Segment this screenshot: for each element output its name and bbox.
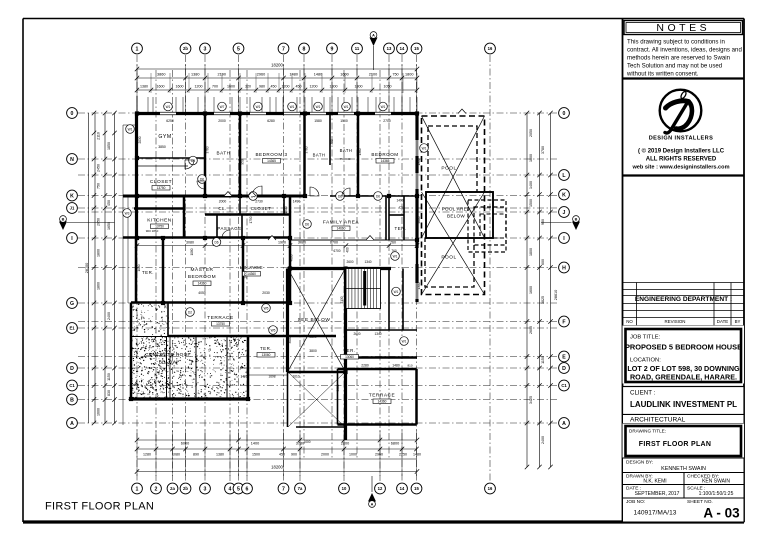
svg-text:D: D xyxy=(70,366,74,372)
top grid bubbles xyxy=(132,43,496,54)
svg-text:2100: 2100 xyxy=(369,73,377,77)
svg-text:2960: 2960 xyxy=(257,73,265,77)
room label LOUNGE xyxy=(240,265,270,295)
svg-text:1800: 1800 xyxy=(529,154,533,162)
svg-text:1900: 1900 xyxy=(278,241,286,245)
svg-text:2600: 2600 xyxy=(529,326,533,334)
pool area below outline xyxy=(426,192,493,238)
svg-text:14365: 14365 xyxy=(381,159,390,163)
title block: drawn/checked row xyxy=(623,473,745,523)
wall: stair right rooms xyxy=(346,269,417,331)
right dim band xyxy=(525,111,558,469)
svg-text:CLOSET: CLOSET xyxy=(150,179,172,185)
svg-text:N.K. KEMI: N.K. KEMI xyxy=(643,479,666,485)
svg-text:W1: W1 xyxy=(344,105,349,109)
svg-text:810: 810 xyxy=(407,364,412,368)
wall: ter/master divider xyxy=(162,238,165,303)
wall: terrace bottom xyxy=(168,335,336,338)
room label TER mid xyxy=(257,346,275,357)
svg-text:BELOW: BELOW xyxy=(447,214,465,219)
svg-text:D: D xyxy=(562,366,566,372)
svg-text:POOL: POOL xyxy=(441,255,456,261)
pool lower dashed outline xyxy=(425,238,474,287)
svg-text:3850: 3850 xyxy=(158,145,166,149)
svg-text:B: B xyxy=(575,217,578,221)
wall: family right ter xyxy=(385,196,387,240)
svg-text:1000: 1000 xyxy=(349,453,357,457)
see-below cross xyxy=(288,269,345,427)
svg-text:1150: 1150 xyxy=(107,373,111,381)
svg-text:18200: 18200 xyxy=(271,63,283,68)
svg-text:1600: 1600 xyxy=(529,286,533,294)
svg-text:BATH: BATH xyxy=(217,151,231,156)
right grid bubbles xyxy=(559,108,570,429)
svg-text:1: 1 xyxy=(136,46,139,52)
bottom dim line 2 xyxy=(135,447,421,457)
svg-text:1800: 1800 xyxy=(529,248,533,256)
svg-text:DESIGN INSTALLERS: DESIGN INSTALLERS xyxy=(649,136,714,142)
svg-text:6280: 6280 xyxy=(267,119,275,123)
svg-text:DATE: DATE xyxy=(717,319,728,324)
svg-text:H: H xyxy=(562,265,566,271)
svg-text:2030: 2030 xyxy=(138,136,142,143)
svg-text:ENGINEERING DEPARTMENT :: ENGINEERING DEPARTMENT : xyxy=(635,296,732,303)
room label TER left xyxy=(142,270,154,275)
svg-text:1860: 1860 xyxy=(97,282,101,290)
room label POOL lower xyxy=(441,255,456,261)
svg-text:1900: 1900 xyxy=(417,158,421,165)
svg-text:700: 700 xyxy=(212,85,218,89)
svg-text:1400: 1400 xyxy=(251,442,259,446)
left dim band xyxy=(85,111,117,425)
svg-text:W7: W7 xyxy=(220,105,225,109)
horizontal grid lines xyxy=(78,113,557,423)
svg-text:1600: 1600 xyxy=(97,408,101,416)
room label CLOSET 2 xyxy=(251,200,301,212)
svg-text:A: A xyxy=(372,33,375,37)
svg-text:( © 2019 Design Installers LLC: ( © 2019 Design Installers LLC xyxy=(638,148,725,155)
svg-text:2190: 2190 xyxy=(218,73,226,77)
svg-text:900: 900 xyxy=(541,219,545,225)
svg-text:W1: W1 xyxy=(166,105,171,109)
svg-text:13750: 13750 xyxy=(157,186,166,190)
wall: bath/bedroom3 divider xyxy=(239,114,242,197)
svg-text:16: 16 xyxy=(488,46,493,51)
svg-text:2130: 2130 xyxy=(340,296,344,303)
svg-text:3780: 3780 xyxy=(541,146,545,154)
svg-text:1480: 1480 xyxy=(413,453,421,457)
svg-text:13060: 13060 xyxy=(262,353,271,357)
pool cross upper xyxy=(422,116,485,238)
top dim extension lines xyxy=(137,64,417,112)
svg-text:2000: 2000 xyxy=(218,119,226,123)
left grid bubbles xyxy=(67,108,78,429)
svg-text:2050: 2050 xyxy=(97,218,101,226)
svg-text:2b: 2b xyxy=(183,486,188,491)
svg-text:2600: 2600 xyxy=(346,260,353,264)
svg-text:2110: 2110 xyxy=(97,132,101,140)
svg-text:1080: 1080 xyxy=(172,453,180,457)
svg-text:7: 7 xyxy=(282,46,285,52)
svg-text:CONCRETE ROOF: CONCRETE ROOF xyxy=(145,352,191,357)
svg-text:1600: 1600 xyxy=(157,85,165,89)
wall: bath/bedroom divider xyxy=(357,114,360,197)
svg-text:KENNETH SWAIN: KENNETH SWAIN xyxy=(661,466,706,472)
svg-text:18200: 18200 xyxy=(271,465,283,470)
roof edge top xyxy=(123,124,137,126)
svg-text:D6: D6 xyxy=(305,222,309,226)
door swing arcs xyxy=(185,160,510,238)
svg-text:FIRST FLOOR PLAN: FIRST FLOOR PLAN xyxy=(45,501,154,513)
svg-text:REVISION: REVISION xyxy=(665,319,686,324)
svg-text:1800: 1800 xyxy=(97,249,101,257)
svg-text:3800: 3800 xyxy=(309,349,317,353)
svg-text:0: 0 xyxy=(71,111,74,117)
room label BEDROOM 3 xyxy=(255,152,287,163)
svg-text:450: 450 xyxy=(296,85,302,89)
wall: cl/closet divider xyxy=(240,196,284,215)
svg-text:N: N xyxy=(70,157,74,163)
svg-text:2450: 2450 xyxy=(97,164,101,172)
top dim line overall xyxy=(135,63,419,72)
svg-text:2730: 2730 xyxy=(255,200,263,204)
svg-text:450: 450 xyxy=(279,453,285,457)
room label TER right xyxy=(394,199,406,232)
svg-text:TERRACE: TERRACE xyxy=(207,315,233,321)
room label BATH 2 xyxy=(313,153,326,158)
svg-text:1500: 1500 xyxy=(284,206,288,213)
svg-text:890: 890 xyxy=(193,453,199,457)
svg-text:K: K xyxy=(70,193,74,199)
wall: concrete roof step xyxy=(169,336,171,399)
wall: concrete roof left xyxy=(130,303,133,400)
svg-text:KEN SWAIN: KEN SWAIN xyxy=(702,479,730,485)
roof edge lines left xyxy=(123,125,128,425)
svg-text:without its written consent.: without its written consent. xyxy=(626,71,699,78)
svg-text:POOL AREA: POOL AREA xyxy=(442,207,471,212)
svg-text:2400: 2400 xyxy=(541,436,545,444)
svg-text:6000: 6000 xyxy=(181,442,189,446)
room label BATH 1 xyxy=(217,151,231,156)
wall: left exterior lower xyxy=(135,238,138,303)
svg-text:GYM: GYM xyxy=(158,134,171,140)
svg-text:2b: 2b xyxy=(183,46,188,51)
svg-text:2400: 2400 xyxy=(107,312,111,320)
svg-text:15: 15 xyxy=(414,486,419,491)
title block: logo captions xyxy=(623,136,745,176)
room label PASSAGE xyxy=(217,226,241,231)
svg-text:4: 4 xyxy=(229,486,232,492)
wall: top exterior xyxy=(137,112,417,115)
svg-text:1400: 1400 xyxy=(240,375,247,379)
svg-text:ALL RIGHTS RESERVED: ALL RIGHTS RESERVED xyxy=(646,157,717,163)
svg-text:7: 7 xyxy=(282,486,285,492)
svg-text:1600: 1600 xyxy=(227,85,235,89)
wall: see-below bottom xyxy=(288,371,346,374)
svg-text:A: A xyxy=(371,502,374,506)
bottom grid bubbles xyxy=(132,483,496,494)
svg-text:6700: 6700 xyxy=(330,241,338,245)
svg-text:16: 16 xyxy=(488,486,493,491)
svg-text:4600: 4600 xyxy=(417,216,421,223)
svg-text:3860: 3860 xyxy=(157,73,165,77)
svg-text:1360: 1360 xyxy=(358,148,362,155)
svg-text:7a: 7a xyxy=(298,486,303,491)
svg-text:W3: W3 xyxy=(125,211,130,215)
pool cross lower xyxy=(422,192,485,295)
svg-text:1480: 1480 xyxy=(314,73,322,77)
svg-text:contract. All inventions, idea: contract. All inventions, ideas, designs… xyxy=(627,47,742,54)
svg-text:28700: 28700 xyxy=(85,263,89,274)
svg-text:J1: J1 xyxy=(70,206,75,211)
svg-text:DRAWING TITLE:: DRAWING TITLE: xyxy=(629,429,666,434)
svg-text:3425: 3425 xyxy=(529,396,533,404)
svg-text:JOB TITLE:: JOB TITLE: xyxy=(630,335,661,341)
svg-text:1150: 1150 xyxy=(541,356,545,364)
svg-text:1:100/1:50/1:25: 1:100/1:50/1:25 xyxy=(699,491,734,497)
svg-text:28610: 28610 xyxy=(554,290,558,301)
room label FAMILY AREA xyxy=(323,220,360,231)
title block: notes disclaimer text xyxy=(623,35,745,79)
wall: terrace2 left xyxy=(337,369,339,425)
room label KITCHEN xyxy=(146,218,172,234)
wall: terrace2 right xyxy=(415,369,418,425)
room label POOL upper xyxy=(441,166,456,172)
svg-text:10: 10 xyxy=(342,486,347,491)
room label BEDROOM xyxy=(371,152,398,163)
svg-text:2: 2 xyxy=(155,486,158,492)
svg-text:TER.: TER. xyxy=(343,348,355,353)
vertical grid lines xyxy=(137,55,490,481)
svg-text:14360: 14360 xyxy=(378,400,387,404)
svg-text:1340: 1340 xyxy=(364,260,371,264)
svg-text:2080: 2080 xyxy=(298,241,306,245)
svg-text:900: 900 xyxy=(291,453,297,457)
svg-text:6250: 6250 xyxy=(166,119,174,123)
svg-text:CL.: CL. xyxy=(218,206,226,211)
wall: concrete roof bottom xyxy=(131,397,248,400)
title block: NOTES header box xyxy=(624,21,743,35)
wall: master/lounge divider xyxy=(242,238,245,303)
wall: gym/bath divider xyxy=(204,114,207,197)
svg-text:Tech Solution and may not be u: Tech Solution and may not be used xyxy=(627,63,722,70)
svg-text:A: A xyxy=(562,421,566,427)
svg-text:2450: 2450 xyxy=(244,271,248,278)
svg-text:2250: 2250 xyxy=(399,453,407,457)
svg-text:JOB NO:: JOB NO: xyxy=(626,499,645,505)
svg-text:1000: 1000 xyxy=(137,264,141,271)
svg-text:1480: 1480 xyxy=(290,73,298,77)
svg-text:BEDROOM 3: BEDROOM 3 xyxy=(255,152,287,157)
svg-text:W1: W1 xyxy=(402,339,407,343)
wall: concrete roof right xyxy=(248,336,290,399)
svg-text:PROPOSED 5 BEDROOM HOUSE: PROPOSED 5 BEDROOM HOUSE xyxy=(625,343,742,352)
svg-text:1380: 1380 xyxy=(216,453,224,457)
svg-text:1490: 1490 xyxy=(396,199,403,203)
svg-text:1500: 1500 xyxy=(340,119,348,123)
svg-text:ROAD, GREENDALE, HARARE.: ROAD, GREENDALE, HARARE. xyxy=(630,373,737,382)
section flag A top xyxy=(370,32,378,70)
wall: terrace2 bottom xyxy=(338,423,417,426)
concrete roof divider walls xyxy=(131,337,248,400)
room label POOL AREA BELOW xyxy=(442,207,471,219)
svg-text:C1: C1 xyxy=(69,383,75,388)
wall: row I xyxy=(123,236,290,239)
svg-text:BATH: BATH xyxy=(340,148,353,153)
svg-text:D6: D6 xyxy=(191,159,195,163)
svg-text:CLOSET: CLOSET xyxy=(251,206,272,211)
room label CONCRETE ROOF xyxy=(145,352,191,365)
svg-text:14: 14 xyxy=(400,46,405,51)
svg-text:1850: 1850 xyxy=(107,142,111,150)
terrace2 dim row xyxy=(361,364,413,368)
svg-text:9: 9 xyxy=(331,46,334,52)
wall: family left xyxy=(289,196,292,303)
svg-text:SEE BELOW: SEE BELOW xyxy=(298,317,331,323)
svg-text:MASTER: MASTER xyxy=(191,267,214,273)
svg-text:BEDROOM: BEDROOM xyxy=(188,274,216,280)
svg-text:1200: 1200 xyxy=(282,85,290,89)
section flag B left xyxy=(59,216,115,230)
svg-text:14660: 14660 xyxy=(337,227,346,231)
section flag A bottom xyxy=(368,476,376,507)
wall: terrace2 row E xyxy=(346,356,418,359)
top dim line segments xyxy=(135,73,419,81)
mid dim line xyxy=(135,241,419,248)
room label TERRACE lower xyxy=(369,393,395,404)
svg-text:750: 750 xyxy=(392,73,398,77)
bottom dim extension lines xyxy=(137,430,417,476)
svg-text:8: 8 xyxy=(303,46,306,52)
svg-text:140917/MA/13: 140917/MA/13 xyxy=(634,510,677,517)
svg-text:A: A xyxy=(70,421,74,427)
pool stepped dashed details xyxy=(468,200,506,252)
section flag B right xyxy=(541,216,580,230)
svg-text:F: F xyxy=(562,319,565,325)
svg-text:6: 6 xyxy=(246,486,249,492)
svg-text:C1: C1 xyxy=(561,383,567,388)
svg-text:2800: 2800 xyxy=(309,335,316,339)
title block: client box xyxy=(623,387,745,415)
svg-text:1650: 1650 xyxy=(107,222,111,230)
svg-text:methods herein are reserved to: methods herein are reserved to Swain xyxy=(627,55,730,62)
wall: row K xyxy=(123,195,417,198)
svg-text:1300: 1300 xyxy=(417,282,421,289)
svg-text:TER.: TER. xyxy=(142,270,154,275)
svg-text:D6: D6 xyxy=(338,194,342,198)
svg-text:2700: 2700 xyxy=(383,119,391,123)
svg-text:TER.: TER. xyxy=(260,346,272,351)
rotated wall dim numbers xyxy=(137,136,421,391)
wall: terrace left xyxy=(167,303,169,337)
bottom dim line overall xyxy=(135,459,419,474)
svg-text:NO: NO xyxy=(626,319,633,324)
svg-text:11: 11 xyxy=(355,46,360,51)
svg-text:12: 12 xyxy=(378,486,383,491)
svg-text:3: 3 xyxy=(204,46,207,52)
svg-text:1800: 1800 xyxy=(405,73,413,77)
svg-text:SHEET NO.: SHEET NO. xyxy=(687,499,713,505)
svg-text:CLIENT :: CLIENT : xyxy=(630,390,656,397)
window labels top xyxy=(164,102,388,111)
room label GYM xyxy=(158,134,171,149)
windows on right wall xyxy=(416,140,419,299)
svg-text:2030: 2030 xyxy=(262,291,270,295)
svg-text:1500: 1500 xyxy=(529,199,533,207)
svg-text:NOTES: NOTES xyxy=(656,22,710,34)
wall: below rooms xyxy=(288,372,346,427)
svg-text:14360: 14360 xyxy=(198,282,207,286)
svg-text:3080: 3080 xyxy=(186,241,194,245)
pool upper dashed outline xyxy=(428,126,477,192)
svg-text:750 600: 750 600 xyxy=(340,157,351,161)
svg-text:3760: 3760 xyxy=(305,146,309,153)
svg-text:1340: 1340 xyxy=(374,332,381,336)
svg-text:320: 320 xyxy=(245,85,251,89)
wall: terrace2 top xyxy=(338,368,417,371)
svg-text:ARCHITECTURAL: ARCHITECTURAL xyxy=(630,417,686,424)
svg-text:450: 450 xyxy=(107,200,111,206)
svg-text:K: K xyxy=(562,192,566,198)
svg-text:1000: 1000 xyxy=(303,440,310,444)
svg-text:1300: 1300 xyxy=(330,85,338,89)
svg-text:950: 950 xyxy=(241,159,245,165)
wall: block G bottom xyxy=(131,301,290,304)
windows on top wall xyxy=(160,112,391,115)
svg-text:E1: E1 xyxy=(69,326,75,331)
wall: bedroom3/bath divider xyxy=(303,114,306,197)
svg-text:BATH: BATH xyxy=(313,153,326,158)
svg-text:2050: 2050 xyxy=(164,301,168,308)
svg-text:W1: W1 xyxy=(316,105,321,109)
svg-text:B: B xyxy=(62,217,65,221)
svg-text:2960: 2960 xyxy=(375,453,383,457)
svg-text:B: B xyxy=(70,397,74,403)
svg-text:350: 350 xyxy=(330,139,334,145)
wall: kitchen top xyxy=(134,207,184,210)
wall: passage left xyxy=(216,215,218,239)
svg-text:W1: W1 xyxy=(381,105,386,109)
bottom dim line 1 xyxy=(135,438,419,446)
svg-text:1500: 1500 xyxy=(252,453,260,457)
svg-text:13750: 13750 xyxy=(216,322,225,326)
svg-text:1580: 1580 xyxy=(314,119,322,123)
svg-text:3825: 3825 xyxy=(541,296,545,304)
svg-text:760: 760 xyxy=(391,249,397,253)
svg-text:5: 5 xyxy=(237,486,240,492)
wall: kitchen right xyxy=(183,196,186,238)
svg-text:A - 03: A - 03 xyxy=(703,506,740,521)
svg-text:900 1860: 900 1860 xyxy=(146,229,159,233)
svg-text:BEDROOM: BEDROOM xyxy=(371,152,398,157)
title block: date/scale row xyxy=(623,485,745,499)
svg-text:G: G xyxy=(70,301,74,307)
door chevrons xyxy=(224,109,466,240)
wall: stair block right xyxy=(344,269,347,441)
svg-text:1200: 1200 xyxy=(195,85,203,89)
svg-text:1200: 1200 xyxy=(310,85,318,89)
svg-text:TERRACE: TERRACE xyxy=(369,393,395,399)
svg-text:3: 3 xyxy=(204,486,207,492)
wall: see-below left xyxy=(286,269,289,373)
svg-text:13750: 13750 xyxy=(155,225,164,229)
svg-text:980: 980 xyxy=(259,85,265,89)
svg-text:KITCHEN: KITCHEN xyxy=(147,218,172,224)
svg-text:6800: 6800 xyxy=(391,442,399,446)
svg-text:14: 14 xyxy=(400,486,405,491)
title block: revision table xyxy=(623,283,745,326)
svg-text:830: 830 xyxy=(107,390,111,396)
